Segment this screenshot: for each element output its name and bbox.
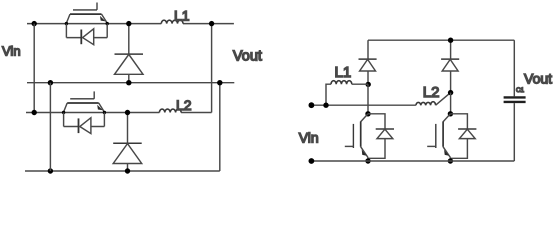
node D2 bottom [125,168,130,173]
svg-text:L2: L2 [176,97,192,113]
transistor Q4 (IGBT vertical with anti-parallel diode) [427,111,476,164]
wire phase2 riser [211,24,213,113]
transistor Q3 (IGBT vertical with anti-parallel diode) [345,111,394,164]
wire bottom rail (right) [311,160,514,162]
node bottom-left [48,168,53,173]
node Vin+ terminal [309,102,315,108]
node phase join [209,21,214,26]
diode D4 (boost phase 2) [441,40,459,92]
diode D1 (freewheel phase 1) [115,24,144,83]
wire top rail (right) [368,39,514,41]
transistor Q2 (IGBT with anti-parallel diode) [62,91,106,133]
node D2 top [125,110,130,115]
inductor L2 (right) [416,102,436,105]
diode D3 (boost phase 1) [359,40,377,84]
svg-text:Vin: Vin [2,44,21,59]
wire row3 phase2 [26,112,212,114]
inductor L1 (right) [326,84,331,105]
node top rail D4 [448,38,453,43]
svg-text:C1: C1 [516,87,525,94]
node Vin- terminal [309,158,315,164]
svg-text:Vout: Vout [233,49,262,65]
inductor L2 (left) [159,109,181,112]
svg-text:Vin: Vin [299,130,319,146]
svg-text:L1: L1 [174,7,190,23]
wire Vin+ line [311,104,416,106]
node gnd-right [217,80,222,85]
node row3-left [32,110,37,115]
node switch 2 [448,90,453,95]
node D1 bottom [126,80,131,85]
node gnd-left [48,80,53,85]
node top-left A [32,21,37,26]
capacitor C1 [504,40,526,161]
svg-text:Vout: Vout [524,71,552,87]
wire switch1 to IGBT3 [367,84,369,114]
node L1 tap [323,103,328,108]
wire L2 diagonal [436,93,451,106]
node switch 1 [366,82,371,87]
wire left vertical Vin+ [33,24,35,113]
svg-text:L2: L2 [423,84,440,101]
wire right lower vertical [219,83,221,171]
wire top rail [27,23,234,25]
wire switch2 to IGBT4 [450,93,452,114]
wire bottom rail [25,170,220,172]
diode D2 (freewheel phase 2) [113,113,142,172]
node D1 top [126,21,131,26]
wire ground rail [27,82,234,84]
transistor Q1 (IGBT with anti-parallel diode) [65,3,109,45]
inductor L1 (left) [161,20,183,23]
svg-text:L1: L1 [335,64,352,81]
wire left lower vertical [49,83,51,171]
